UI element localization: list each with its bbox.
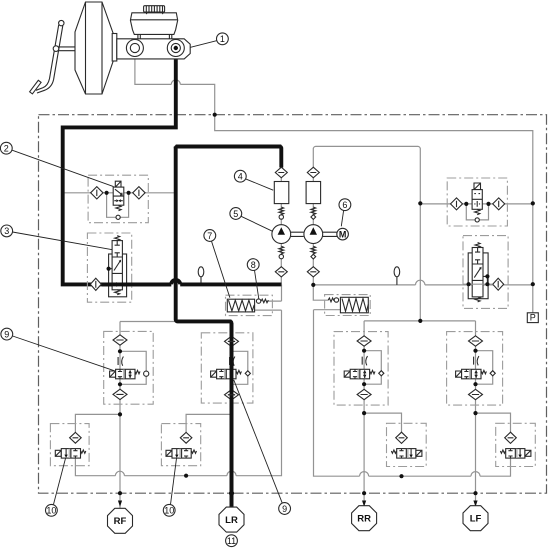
wire: LF inlet-valve bypass loop — [476, 351, 493, 385]
LF port octagon — [463, 506, 488, 531]
RF bypass check ball — [144, 371, 149, 376]
cut valve 2 group box — [88, 175, 148, 223]
outlet check filter right (diamond with dash) — [307, 167, 319, 178]
wire: rear circuit pressure line with P sensor branch — [313, 284, 533, 286]
svg-text:RR: RR — [357, 514, 371, 525]
damper chamber (right) — [306, 182, 321, 204]
line overlay through valve 3' — [463, 283, 493, 285]
svg-text:3: 3 — [4, 226, 9, 236]
svg-text:8: 8 — [251, 260, 256, 270]
RF lower filter — [113, 389, 127, 399]
pump 5 (left plunger pump) — [272, 225, 291, 244]
svg-text:7: 7 — [207, 231, 212, 241]
svg-text:P: P — [530, 313, 536, 323]
arrow to RF wheel — [118, 501, 122, 507]
valve 2' bypass check ball — [475, 218, 479, 222]
wire: LF outlet-valve branch — [476, 413, 511, 433]
LR inlet valve flow arrows — [229, 370, 232, 378]
pump drive shaft left — [291, 232, 304, 236]
inlet valve 9 LF group box — [447, 332, 503, 406]
wire: front circuit return line to pump1 suction — [75, 310, 281, 476]
LR inlet valve port marks — [219, 369, 223, 379]
RR lower filter — [357, 389, 371, 399]
reservoir cap — [144, 6, 165, 12]
RF inlet valve flow arrows — [128, 370, 131, 378]
RR outlet valve body — [397, 449, 416, 459]
wire: pressure sensor stub left — [200, 277, 202, 284]
pump1 suction filter (diamond with dash) — [275, 267, 287, 277]
LF outlet valve spring — [500, 450, 505, 453]
wire: LR inlet-valve bypass loop — [232, 351, 248, 384]
valve 3' cell marks — [474, 248, 481, 278]
master cylinder 1 body — [117, 39, 190, 59]
damper chamber 4 (left) — [274, 182, 289, 204]
LF inlet valve spring — [481, 370, 486, 373]
svg-text:4: 4 — [238, 172, 243, 182]
RR outlet valve spring — [391, 450, 396, 453]
wire: return jump over LF column — [471, 472, 480, 477]
LR outlet valve port marks — [184, 449, 188, 459]
RF outlet valve spring — [81, 450, 86, 453]
RR inlet valve port marks — [353, 369, 357, 379]
wire: thick line to LR wheel — [176, 147, 232, 509]
svg-text:LR: LR — [225, 515, 238, 526]
node valve 2' feed — [418, 201, 422, 205]
RF outlet valve port marks — [73, 449, 77, 459]
LR inlet valve solenoid — [211, 371, 217, 377]
node LR at boundary — [229, 491, 234, 496]
wire: pump2 outlet top run to rear-circuit drop — [313, 146, 420, 321]
RF port octagon — [107, 508, 132, 533]
LR outlet filter — [180, 432, 192, 443]
LR port octagon — [219, 507, 244, 532]
node LF bypass top — [473, 349, 477, 353]
node valve 2' right to sensor line — [531, 201, 535, 205]
booster to MC flange — [112, 34, 117, 62]
label 9 inlet valve left — [13, 336, 115, 371]
svg-text:M: M — [339, 230, 347, 240]
pump2 suction filter (diamond with dash) — [307, 267, 319, 277]
wire: RF outlet-valve branch — [75, 414, 120, 432]
valve 3 cell marks — [114, 241, 121, 271]
svg-text:RF: RF — [114, 516, 127, 527]
svg-text:6: 6 — [342, 200, 347, 210]
wire: RF supply branch — [120, 322, 175, 336]
label 5 pump — [241, 216, 273, 231]
LF outlet valve body — [506, 449, 525, 459]
pump (right plunger pump) — [304, 225, 323, 244]
booster push rod — [59, 47, 75, 51]
valve 3' inner frame — [468, 253, 488, 299]
LR lower filter — [225, 390, 239, 400]
wire: relief 2 input and output connections — [313, 285, 340, 310]
LF outlet valve flow arrow — [519, 449, 521, 456]
outlet valve 10 LR group box — [161, 424, 200, 466]
RR inlet valve body — [350, 369, 369, 379]
LR inlet valve spring — [236, 370, 241, 373]
wire: pump1 suction column below thick junction to relief 1 — [255, 284, 282, 310]
svg-text:10: 10 — [164, 506, 174, 516]
LF inlet valve port marks — [464, 369, 468, 379]
node RR bypass top — [362, 349, 366, 353]
node RR outlet branch — [362, 411, 366, 415]
svg-text:LF: LF — [470, 514, 482, 525]
node valve 3' frame left — [467, 282, 471, 286]
node valve 2 bypass left — [105, 191, 109, 195]
valve 2 body — [113, 187, 124, 205]
label 6 motor — [341, 211, 343, 227]
node RR bypass bottom — [362, 382, 366, 386]
brake pedal — [36, 25, 63, 93]
outlet valve 10 RF group box — [50, 424, 89, 466]
wire: bypass loop of valve 2 — [107, 193, 129, 218]
wire: thick primary circuit from master cylinder through shuttle valve 3 — [63, 49, 282, 284]
wire: RF wheel column — [119, 345, 121, 509]
wire: bypass loop of valve 2' — [466, 203, 488, 220]
LR upper filter — [225, 336, 239, 346]
wire: jump of rear pressure line over drop line — [416, 280, 425, 285]
LR outlet valve flow arrow — [176, 449, 178, 456]
shuttle valve 3 group box — [87, 233, 131, 302]
relief valve 7/8 group box — [226, 295, 273, 315]
wire: LR outlet-valve branch — [186, 414, 231, 432]
valve 3 top spring — [115, 236, 120, 241]
relief check 8 poppet and spring — [256, 299, 260, 303]
filter right of valve 3' — [493, 278, 504, 290]
filter on thick line at valve 3 — [90, 278, 101, 290]
motor 6 — [337, 228, 349, 240]
thick line overlay through valve 3 — [102, 282, 171, 286]
wire: RR outlet-valve branch — [364, 413, 401, 433]
pedal pivot — [59, 20, 64, 25]
RF outlet valve solenoid — [55, 450, 61, 456]
relief valve spring chamber (rear) — [340, 297, 368, 313]
relief valve 7 spring chamber — [227, 299, 254, 312]
label 2 cut valve — [12, 150, 113, 186]
LF lower filter — [469, 389, 483, 399]
LF outlet valve port marks — [508, 449, 512, 459]
node LF bypass bottom — [473, 382, 477, 386]
filter right of valve 2 — [133, 187, 145, 199]
node P sensor branch — [531, 282, 535, 286]
inlet valve 9 RR group box — [334, 332, 388, 406]
pressure chamber oval right — [394, 267, 400, 277]
HU outer boundary box — [39, 115, 547, 494]
MC primary port — [126, 40, 143, 57]
pump1 suction check valve spring and ball — [279, 246, 284, 254]
junction node at boundary crossing of secondary line — [213, 113, 217, 117]
label 8 relief check — [255, 270, 259, 299]
RR inlet valve solenoid — [344, 371, 350, 377]
cut valve 2' group box — [447, 178, 507, 226]
wire: pump column stubs — [281, 177, 313, 285]
brake pedal pad — [30, 80, 41, 94]
thick line arrow in valve 3 cell — [116, 282, 121, 287]
label 1 master cylinder — [191, 41, 217, 48]
relief valve group box (rear circuit) — [325, 295, 371, 316]
wire: rear circuit return line to pump2 suction — [314, 310, 511, 477]
LR bypass check poppet — [245, 371, 250, 376]
pressure switch P box — [527, 313, 538, 323]
filter left of valve 2 — [91, 187, 103, 199]
pump2 outlet check valve spring and poppet — [311, 207, 316, 215]
wire: RF inlet-valve bypass loop — [120, 351, 146, 384]
outlet check filter left (diamond with dash) — [275, 167, 287, 178]
valve 2 bypass check ball — [116, 215, 120, 219]
svg-text:11: 11 — [227, 536, 236, 546]
wire: thick jump at crossing — [171, 280, 180, 285]
RR port octagon — [352, 506, 377, 531]
RR outlet filter — [396, 432, 408, 443]
wire: thick pump1 delivery frame — [176, 147, 282, 168]
pressure chamber oval left — [198, 267, 204, 277]
RF outlet valve 10 body — [61, 449, 80, 459]
svg-text:9: 9 — [282, 504, 287, 514]
valve 3 pilot stub — [109, 268, 113, 270]
valve 3 inner frame — [109, 254, 127, 297]
node valve 2' bypass left — [464, 202, 468, 206]
LR outlet valve solenoid — [166, 450, 172, 456]
node pump2 delivery to rear pressure line — [311, 283, 315, 287]
RR outlet valve flow arrow — [410, 449, 412, 456]
wire: line through cut valve 2 — [63, 192, 176, 194]
valve 3' top spring — [475, 243, 480, 248]
node RF bypass top — [118, 349, 122, 353]
node valve 3' pilot bottom — [485, 282, 489, 286]
node RR outlet return — [399, 474, 403, 478]
node rear supply drop — [418, 319, 422, 323]
valve 3 body — [112, 241, 122, 290]
label 3 shuttle valve — [13, 232, 113, 250]
LR outlet valve spring — [192, 450, 197, 453]
node valve 3' pilot top — [485, 274, 489, 278]
svg-text:10: 10 — [46, 506, 56, 516]
svg-text:5: 5 — [233, 209, 238, 219]
valve 3' body — [472, 248, 483, 297]
shuttle valve 3' group box — [463, 236, 508, 309]
wire: LF wheel column — [475, 346, 477, 508]
RF upper filter — [113, 335, 127, 345]
LR outlet valve body — [172, 449, 191, 459]
node LF outlet branch — [473, 411, 477, 415]
relief check poppet and spring (rear) — [328, 298, 334, 302]
valve 3 bottom spring — [115, 290, 120, 295]
RF inlet valve solenoid — [110, 371, 116, 377]
pump drive shaft right — [323, 232, 337, 236]
svg-text:2: 2 — [4, 144, 9, 154]
RF inlet valve port marks — [118, 369, 122, 379]
node valve 2' bypass right — [486, 202, 490, 206]
RF inlet valve spring — [135, 370, 140, 373]
thick LR line overlay through inlet valve group — [230, 323, 234, 508]
pump2 suction check valve spring and poppet — [311, 246, 316, 254]
wire: jump of secondary line over thick primary line — [171, 80, 180, 85]
node RR at boundary — [362, 491, 366, 495]
filter left of valve 2' — [451, 198, 463, 210]
LR filter dash marks beside thick line — [228, 341, 235, 394]
label 10 outlet valve RF — [54, 458, 66, 505]
node LR outlet return — [184, 474, 188, 478]
node LF at boundary — [473, 491, 477, 495]
outlet valve RR group box — [387, 423, 427, 466]
node RF bypass bottom — [118, 382, 122, 386]
outlet valve LF group box — [496, 423, 536, 466]
valve 3' pilot stub — [483, 276, 487, 284]
wire: RR inlet-valve bypass loop — [364, 351, 381, 385]
pedal clevis pin — [53, 46, 59, 52]
LF upper filter — [469, 336, 483, 346]
svg-text:1: 1 — [220, 34, 225, 44]
RR outlet valve port marks — [399, 449, 403, 459]
wire: rear wheels supply line RR-LF — [364, 321, 475, 336]
LR seat mark — [230, 357, 235, 366]
LF bypass check poppet — [490, 371, 495, 376]
label 4 damper — [246, 179, 274, 190]
LF seat mark — [474, 356, 479, 365]
wire: return jump over RF column — [115, 471, 124, 476]
label 9 inlet valve right — [234, 380, 282, 503]
LF outlet valve solenoid — [525, 450, 531, 456]
filter right of valve 2' — [493, 198, 505, 210]
RR bypass check poppet — [379, 371, 384, 376]
wire: RR wheel column — [363, 346, 365, 508]
wire: secondary MC circuit from left port to right-side valves and P sensor — [135, 57, 533, 313]
valve 2' spring — [475, 209, 480, 214]
arrow to RR wheel — [362, 501, 366, 507]
arrow to LF wheel — [473, 501, 477, 507]
RR inlet valve flow arrows — [363, 370, 366, 378]
label 10 outlet valve LR — [171, 458, 177, 505]
node RF outlet branch — [118, 412, 122, 416]
wire: pressure sensor stub right — [396, 277, 398, 285]
RF seat mark — [118, 357, 123, 366]
RR inlet valve spring — [370, 370, 375, 373]
wire: return jump over LR thick column — [227, 471, 236, 476]
pump1 outlet check valve spring and ball — [279, 207, 284, 215]
LR inlet valve body — [217, 369, 236, 379]
valve 2' body — [472, 190, 482, 210]
valve 2 spring — [116, 205, 121, 211]
LF inlet valve flow arrows — [474, 370, 477, 378]
solenoid coil of valve 2' — [474, 183, 481, 190]
inlet valve 9 LR group box — [201, 333, 253, 403]
RF outlet valve flow arrow — [65, 449, 67, 456]
node valve 2 bypass right — [127, 191, 131, 195]
MC secondary port — [167, 40, 184, 57]
valve 3' bottom spring — [475, 297, 480, 302]
LF outlet filter — [505, 432, 517, 443]
LF inlet valve solenoid — [456, 371, 462, 377]
reservoir body — [130, 13, 177, 35]
wire: feed line through cut valve 2' — [420, 203, 533, 205]
node RF at boundary — [118, 491, 122, 495]
label 7 relief spring — [212, 241, 230, 298]
reservoir legs — [138, 34, 172, 38]
inlet valve 9 RF group box — [104, 331, 154, 404]
RR outlet valve solenoid — [416, 450, 422, 456]
solenoid coil of valve 2 — [115, 181, 121, 187]
RF outlet filter — [70, 432, 82, 443]
LF inlet valve body — [462, 369, 481, 379]
RR upper filter — [357, 336, 371, 346]
svg-text:9: 9 — [4, 329, 9, 339]
node valve 3 pilot — [107, 267, 111, 271]
label 11 LR brake line — [226, 535, 238, 547]
RF inlet valve 9 body — [116, 369, 135, 379]
RR seat mark — [362, 356, 367, 365]
vacuum booster — [75, 2, 113, 94]
wire: return jump over RR column — [360, 472, 369, 477]
